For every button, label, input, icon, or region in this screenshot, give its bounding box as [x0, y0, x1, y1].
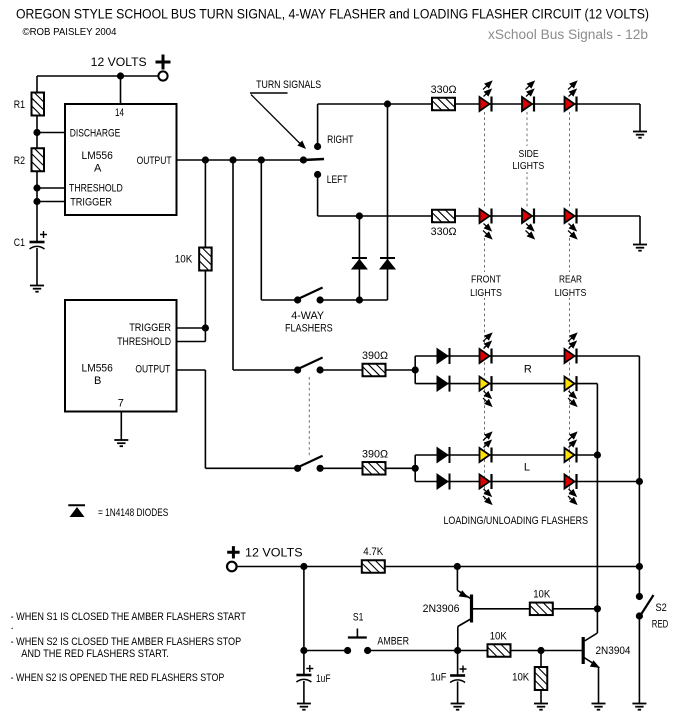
- svg-text:A: A: [94, 163, 102, 175]
- diode L yellow: [437, 447, 450, 463]
- LED rear right red: [565, 334, 577, 364]
- wire amber line: [368, 650, 487, 652]
- wire discharge pin: [37, 132, 65, 134]
- diode R red: [437, 348, 450, 364]
- wire right branch: [388, 103, 433, 105]
- node collector Q2: [594, 605, 601, 612]
- wire to ground top: [639, 104, 641, 132]
- LED rear left yellow: [565, 433, 577, 463]
- svg-text:R2: R2: [14, 155, 25, 167]
- capacitor 1uF left: [296, 675, 311, 682]
- svg-text:TRIGGER: TRIGGER: [70, 197, 112, 209]
- wire diode D1 vertical: [358, 216, 360, 300]
- svg-text:R1: R1: [14, 99, 25, 111]
- arrow to switch: [251, 95, 300, 144]
- dashed gang line side col1: [484, 112, 486, 208]
- wire right contact up: [317, 104, 319, 147]
- svg-text:THRESHOLD: THRESHOLD: [69, 183, 123, 195]
- svg-text:330Ω: 330Ω: [431, 226, 457, 238]
- svg-text:LEFT: LEFT: [327, 174, 348, 186]
- svg-text:TURN SIGNALS: TURN SIGNALS: [256, 79, 321, 91]
- wire loading switch to 390L: [320, 467, 363, 469]
- LED side right 3: [565, 82, 577, 112]
- svg-text:LIGHTS: LIGHTS: [470, 287, 502, 299]
- transistor Q1 2N3906: [457, 567, 530, 651]
- svg-text:R: R: [524, 364, 532, 376]
- dashed gang line rear col: [569, 238, 571, 500]
- underline turn signals: [250, 92, 288, 94]
- node LEFT contact: [314, 171, 321, 178]
- resistor 330 ohm bottom: [432, 210, 455, 223]
- wire to S1: [304, 650, 348, 652]
- resistor 10K base: [488, 644, 511, 657]
- ground C1: [30, 286, 44, 292]
- node 1uF right tap: [454, 647, 461, 654]
- svg-text:- WHEN S1 IS CLOSED THE AMBER: - WHEN S1 IS CLOSED THE AMBER FLASHERS S…: [11, 611, 247, 623]
- svg-text:= 1N4148 DIODES: = 1N4148 DIODES: [98, 507, 168, 519]
- wire 390R to split: [385, 369, 415, 371]
- plus symbol top supply: [156, 55, 171, 70]
- LED rear left red: [565, 474, 577, 504]
- switch 4-way upper: [294, 288, 324, 304]
- svg-text:1uF: 1uF: [431, 672, 447, 684]
- node threshold junction: [33, 184, 40, 191]
- node red rail supply tap: [636, 563, 643, 570]
- node yellow rail L tap: [594, 451, 601, 458]
- ground S2: [632, 704, 646, 710]
- switch 4-way lower: [294, 358, 324, 374]
- svg-text:- WHEN S2 IS OPENED THE RED FL: - WHEN S2 IS OPENED THE RED FLASHERS STO…: [11, 672, 225, 684]
- svg-text:10K: 10K: [175, 254, 193, 266]
- svg-text:14: 14: [115, 107, 124, 119]
- wire left rail top: [36, 76, 38, 93]
- resistor R2: [32, 148, 45, 171]
- svg-text:RED: RED: [652, 619, 669, 631]
- wire L red row: [415, 481, 639, 483]
- node pin14 junction: [117, 72, 124, 79]
- wire R split vertical: [414, 356, 416, 384]
- wire 10K pulldown: [540, 651, 542, 668]
- svg-text:AND THE RED FLASHERS START.: AND THE RED FLASHERS START.: [21, 648, 169, 660]
- wire A out to upper 4way: [260, 160, 262, 300]
- diode D1 (1N4148): [352, 258, 367, 269]
- svg-text:S1: S1: [353, 611, 364, 623]
- resistor 10K (trigger B): [199, 248, 212, 271]
- svg-text:330Ω: 330Ω: [431, 84, 457, 96]
- resistor 390 ohm R: [363, 364, 386, 377]
- wire feedback to node: [553, 608, 598, 610]
- svg-text:LIGHTS: LIGHTS: [555, 287, 587, 299]
- wire diode D2 vertical: [387, 216, 389, 300]
- wire box right: [387, 104, 389, 216]
- wire 12V top rail: [37, 75, 158, 77]
- dashed gang line front col: [484, 238, 486, 500]
- node S1 left: [300, 647, 307, 654]
- LED side left 3: [565, 209, 577, 239]
- ground LM556 B: [114, 440, 128, 446]
- wire trigger pin: [37, 201, 65, 203]
- node output A j2: [229, 156, 236, 163]
- resistor 4.7K: [362, 560, 385, 573]
- wire threshold pin: [37, 187, 65, 189]
- op-amp/timer U1 LM556 A box: [65, 104, 177, 215]
- wire L yellow row: [415, 454, 597, 456]
- wire yellow rail: [596, 384, 598, 608]
- svg-text:7: 7: [118, 398, 124, 410]
- LED side left 2: [522, 209, 534, 239]
- node output A j3: [258, 156, 265, 163]
- ground 1uF right: [451, 704, 465, 710]
- svg-text:OUTPUT: OUTPUT: [137, 155, 172, 167]
- capacitor 1uF right: [450, 676, 465, 683]
- node trigger junction: [33, 198, 40, 205]
- svg-text:©ROB PAISLEY 2004: ©ROB PAISLEY 2004: [23, 26, 117, 38]
- ground side right: [633, 132, 647, 138]
- svg-text:OUTPUT: OUTPUT: [135, 364, 170, 376]
- wire 10K to trigger B: [204, 271, 206, 329]
- svg-text:S2: S2: [656, 602, 667, 614]
- capacitor C1: [30, 242, 45, 249]
- svg-text:10K: 10K: [490, 631, 508, 643]
- svg-text:4.7K: 4.7K: [363, 546, 384, 558]
- node left-branch diode tap: [356, 212, 363, 219]
- LED side left 1: [480, 209, 492, 239]
- dashed gang line side col3: [569, 112, 571, 208]
- svg-text:RIGHT: RIGHT: [327, 134, 354, 146]
- svg-text:4-WAY: 4-WAY: [291, 310, 324, 322]
- node trigger B: [202, 324, 209, 331]
- node red rail L tap: [636, 478, 643, 485]
- ground Q2 emitter: [592, 704, 606, 710]
- wire 1uF right stub: [457, 651, 459, 675]
- svg-text:LM556: LM556: [82, 362, 113, 374]
- LED front right red: [480, 334, 492, 364]
- wire C1 to ground: [36, 248, 38, 286]
- label REAR LIGHTS: [552, 272, 589, 298]
- svg-text:LOADING/UNLOADING FLASHERS: LOADING/UNLOADING FLASHERS: [444, 515, 589, 527]
- node 10K pulldown tap: [537, 647, 544, 654]
- svg-text:FRONT: FRONT: [471, 274, 501, 286]
- svg-text:C1: C1: [14, 237, 25, 249]
- svg-text:REAR: REAR: [559, 274, 582, 286]
- svg-text:DISCHARGE: DISCHARGE: [70, 128, 121, 140]
- svg-text:OREGON STYLE SCHOOL BUS TURN S: OREGON STYLE SCHOOL BUS TURN SIGNAL, 4-W…: [16, 7, 649, 22]
- LED side right 2: [522, 82, 534, 112]
- svg-text:LM556: LM556: [82, 150, 113, 162]
- legend diode symbol: [68, 505, 85, 517]
- ground side left: [633, 245, 647, 251]
- svg-text:xSchool Bus Signals - 12b: xSchool Bus Signals - 12b: [488, 27, 648, 42]
- wire pulldown to ground: [540, 690, 542, 704]
- svg-text:- WHEN S2 IS CLOSED THE AMBER: - WHEN S2 IS CLOSED THE AMBER FLASHERS S…: [11, 636, 242, 648]
- resistor R1: [32, 93, 45, 116]
- wire R red row: [415, 355, 639, 357]
- transistor Q2 2N3904: [583, 609, 600, 704]
- svg-text:FLASHERS: FLASHERS: [285, 323, 333, 335]
- wire pin 14: [120, 76, 122, 104]
- svg-text:2N3906: 2N3906: [423, 603, 460, 615]
- switch loading flasher: [294, 456, 324, 472]
- LED front left red: [480, 474, 492, 504]
- svg-text:1uF: 1uF: [316, 673, 331, 685]
- node R split: [412, 366, 419, 373]
- svg-text:LIGHTS: LIGHTS: [513, 160, 545, 172]
- LED side right 1: [480, 82, 492, 112]
- diode L red: [437, 474, 450, 490]
- svg-text:L: L: [524, 462, 530, 474]
- switch turn signal pole: [303, 159, 324, 160]
- wire threshold B pin: [177, 341, 206, 343]
- wire left contact down: [317, 175, 319, 217]
- node D1 bottom: [356, 296, 363, 303]
- diode R yellow: [437, 376, 450, 392]
- wire 1uF left to ground: [303, 681, 305, 704]
- svg-text:B: B: [94, 375, 101, 387]
- wire left branch: [388, 215, 433, 217]
- wire R2 to C1: [36, 171, 38, 241]
- wire R yellow row: [415, 383, 597, 385]
- timer U2 LM556 B box: [65, 300, 177, 412]
- svg-text:10K: 10K: [533, 589, 551, 601]
- LED front left yellow: [480, 433, 492, 463]
- wire output A: [177, 159, 304, 161]
- wire R1 to R2: [36, 116, 38, 150]
- resistor 330 ohm top: [432, 98, 455, 111]
- plus C1: [40, 231, 47, 238]
- svg-text:390Ω: 390Ω: [362, 350, 388, 362]
- ground 10K pulldown: [534, 704, 548, 710]
- svg-text:12 VOLTS: 12 VOLTS: [91, 57, 147, 69]
- wire trigger B pin: [177, 327, 206, 329]
- svg-text:TRIGGER: TRIGGER: [129, 322, 171, 334]
- terminal 12V top: [158, 71, 167, 80]
- node L split: [412, 465, 419, 472]
- wire 4way lower to 390: [320, 369, 363, 371]
- terminal 12V bottom: [227, 562, 237, 572]
- svg-text:390Ω: 390Ω: [362, 449, 388, 461]
- switch S1 pushbutton: [344, 629, 371, 655]
- node discharge junction: [33, 129, 40, 136]
- wire box bottom: [318, 215, 388, 217]
- node output A j1: [202, 156, 209, 163]
- wire pin 7: [120, 412, 122, 441]
- wire bottom supply rail: [237, 566, 640, 568]
- wire box top: [318, 103, 388, 105]
- plus symbol bottom supply: [227, 546, 239, 558]
- resistor 10K feedback: [530, 603, 553, 616]
- wire 390L to split: [385, 467, 415, 469]
- ground 1uF left: [297, 704, 311, 710]
- wire B out: [177, 369, 206, 371]
- wire 10K drop: [204, 160, 206, 248]
- wire S2 to ground: [638, 616, 640, 704]
- wire A out to lower 4way: [232, 160, 234, 370]
- svg-text:10K: 10K: [512, 672, 530, 684]
- wire to ground 2: [639, 216, 641, 245]
- resistor 10K pulldown: [535, 667, 548, 690]
- LED front right yellow: [480, 376, 492, 406]
- svg-text:AMBER: AMBER: [377, 636, 409, 648]
- switch S2: [636, 593, 654, 620]
- label FRONT LIGHTS: [468, 272, 505, 298]
- svg-text:2N3904: 2N3904: [596, 645, 631, 657]
- wire red rail: [638, 356, 640, 597]
- node box top-right: [384, 100, 391, 107]
- label SIDE LIGHTS: [508, 146, 549, 172]
- node cap tap: [300, 563, 307, 570]
- svg-text:.: .: [11, 620, 14, 632]
- dashed gang line side col2: [526, 112, 528, 208]
- node RIGHT contact: [314, 143, 321, 150]
- wire 4way top feed: [320, 299, 387, 301]
- svg-text:THRESHOLD: THRESHOLD: [117, 336, 171, 348]
- svg-text:12 VOLTS: 12 VOLTS: [245, 548, 303, 560]
- diode D2 (1N4148): [380, 258, 395, 269]
- dashed gang 4way to loading switch: [308, 377, 310, 457]
- LED rear right yellow: [565, 376, 577, 406]
- resistor 390 ohm L: [363, 462, 386, 475]
- wire cap drop: [303, 567, 305, 675]
- wire 10K base to Q2: [511, 650, 583, 652]
- wire L split vertical: [414, 455, 416, 482]
- node emitter tap: [454, 563, 461, 570]
- svg-text:SIDE: SIDE: [519, 148, 539, 160]
